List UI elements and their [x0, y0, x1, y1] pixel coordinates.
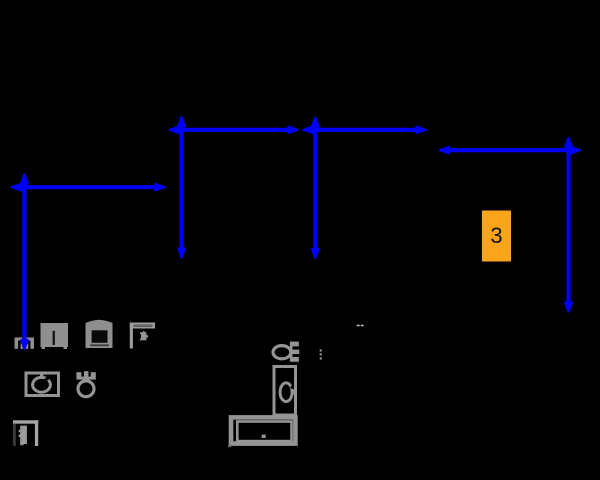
dimension arrow group A vertical (left)	[21, 175, 27, 350]
dimension arrow group D horizontal (right)	[440, 147, 580, 153]
washer icon	[41, 323, 69, 349]
faint dot column	[320, 349, 322, 359]
dimension arrow group A horizontal (left)	[12, 184, 165, 190]
door icon	[13, 420, 38, 446]
svg-text:3: 3	[490, 223, 502, 248]
dimension arrow group B horizontal	[170, 127, 298, 133]
stove icon (under arrow, bottom-left)	[15, 338, 35, 349]
dimension arrow group C vertical	[312, 118, 318, 259]
dimension arrow group C horizontal	[304, 127, 426, 133]
faint dash marks	[357, 325, 364, 327]
dimension arrow group D vertical (right)	[565, 138, 571, 312]
toilet icon	[76, 371, 95, 396]
sink icon	[26, 373, 59, 396]
toilet icon rotated (bathroom cluster)	[273, 342, 299, 362]
dimension arrow group B vertical	[178, 117, 184, 258]
bathtub icon (bathroom cluster)	[228, 417, 295, 447]
sink icon rotated (bathroom cluster)	[274, 367, 297, 416]
fireplace icon	[86, 320, 113, 348]
room label box 3	[482, 211, 511, 262]
corner-frame icon with cross	[130, 323, 155, 349]
